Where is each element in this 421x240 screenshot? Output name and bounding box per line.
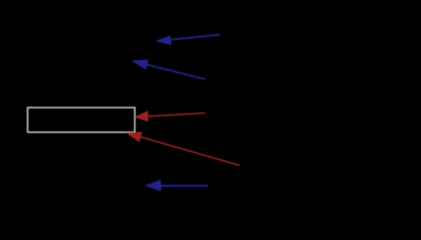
callout arrow A5 (blue, lower horizontal) xyxy=(145,180,209,192)
callout arrow A3 (red, points to right edge of box U1) xyxy=(134,111,205,122)
callout arrow A4 (red, points to bottom-right corner of box U1) xyxy=(126,132,240,166)
component U1 (gray box outline, IEC-style component body) xyxy=(28,108,135,133)
callout arrow A2 (blue, middle) xyxy=(131,60,205,80)
callout arrow A1 (blue, upper-left pointing) xyxy=(155,35,220,45)
